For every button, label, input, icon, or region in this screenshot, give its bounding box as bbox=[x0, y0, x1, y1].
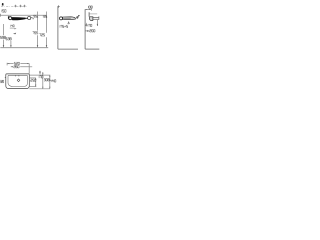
rim 2 bottom line bbox=[93, 18, 99, 20]
drain symbol bbox=[17, 79, 20, 82]
dim right hook tail bbox=[29, 66, 32, 68]
label 140 bbox=[11, 25, 14, 27]
dim right hook vertical bbox=[28, 63, 30, 73]
label 440 bbox=[51, 80, 56, 82]
arrow 170p bottom bbox=[42, 87, 43, 89]
arrow 140 bbox=[13, 33, 16, 35]
arrow 725 top bbox=[46, 15, 47, 17]
section tap-hole outline bbox=[28, 17, 31, 20]
v-dim right of basin 2 bbox=[96, 20, 98, 26]
wall 1 line bbox=[57, 7, 59, 49]
diameter symbol bbox=[77, 15, 80, 18]
v-dim arrow bbox=[97, 24, 98, 26]
label 755 bbox=[33, 32, 38, 34]
ext line ledge bbox=[29, 77, 36, 79]
section overflow circle bbox=[9, 17, 12, 20]
basin inner bowl bbox=[8, 75, 28, 86]
label 200 bbox=[90, 30, 95, 32]
fixing cross 1 bbox=[14, 5, 16, 7]
tap ledge tick 2 bbox=[18, 75, 20, 76]
label 320 bbox=[0, 80, 4, 83]
dim 520 left tick bbox=[6, 63, 8, 66]
arrow 638 bottom bbox=[10, 45, 11, 47]
dim 108 line bbox=[85, 8, 91, 10]
dot 140 bbox=[15, 28, 16, 29]
floor line 2 bbox=[85, 48, 99, 50]
rim line left tick bbox=[0, 14, 2, 17]
basin 1 mid line bbox=[63, 17, 71, 19]
tap/overflow mark top-left bbox=[2, 3, 4, 6]
rim 2 top line bbox=[93, 17, 99, 19]
dim line 755 lower bbox=[37, 35, 39, 47]
label 250 bbox=[31, 79, 36, 81]
arrow 320 bbox=[5, 77, 6, 78]
rim reference line bbox=[0, 14, 47, 16]
v-dim 250 bbox=[35, 78, 37, 87]
label 175+-5 bbox=[60, 25, 68, 27]
arrow under basin 1 bbox=[68, 22, 70, 24]
section rim tail bbox=[26, 17, 28, 19]
label 638 bbox=[6, 38, 11, 40]
arrow 725 bottom bbox=[46, 45, 47, 47]
label 308 bbox=[44, 79, 49, 81]
floor line 1 bbox=[58, 48, 78, 50]
v-dim 440 bbox=[49, 75, 51, 89]
dim line 598 lower bbox=[3, 40, 5, 48]
dim 260 arrow L bbox=[11, 66, 13, 67]
label 95 bbox=[34, 15, 37, 17]
arrow 755 bottom bbox=[37, 45, 38, 47]
arrow 250 bottom bbox=[35, 85, 36, 87]
section end dot 1 bbox=[31, 17, 32, 18]
dim 520 line bbox=[7, 63, 29, 65]
tap 2 bbox=[88, 12, 90, 16]
label 170 wall bbox=[88, 24, 92, 26]
dim 520 arrow L bbox=[7, 63, 9, 64]
dash-dot centerline bbox=[1, 6, 27, 8]
section left tick bbox=[7, 16, 9, 19]
dim line 725 lower bbox=[46, 37, 48, 47]
ext line outer-bottom bbox=[29, 88, 50, 90]
label 520 bbox=[14, 62, 19, 64]
trap circle bbox=[60, 17, 63, 20]
bowl 2 bbox=[90, 17, 93, 21]
ext line bowl-bottom bbox=[29, 86, 36, 88]
fixing cross 2 bbox=[19, 5, 21, 7]
bracket 140 bbox=[10, 28, 15, 29]
arrow 250 top bbox=[35, 78, 36, 80]
arrow 170 wall bbox=[86, 24, 87, 27]
dim 520 arrow R bbox=[27, 63, 29, 64]
dim 108 arrow R bbox=[89, 9, 91, 10]
wall 2 line bbox=[84, 9, 86, 49]
arrow 755 top bbox=[37, 15, 38, 17]
arrow 170p bbox=[42, 73, 43, 75]
fixing cross 3 bbox=[23, 5, 25, 7]
label 170 plan bbox=[39, 76, 43, 78]
arrow 440 bottom bbox=[49, 87, 50, 89]
section basin solid band bbox=[12, 17, 26, 20]
dim 260 line bbox=[11, 66, 29, 68]
label 725 bbox=[39, 34, 44, 36]
dim 108 arrow L bbox=[85, 9, 87, 10]
label 598 bbox=[0, 36, 5, 38]
section end dot 2 bbox=[33, 18, 34, 19]
label 108 bbox=[88, 6, 92, 8]
arrow 440 top bbox=[49, 75, 50, 77]
dim line 725 bbox=[46, 12, 48, 33]
basin 1 body bbox=[63, 17, 76, 20]
label 260 bbox=[14, 66, 19, 68]
arrow 598 bottom bbox=[3, 45, 4, 47]
label 135 bbox=[43, 15, 47, 17]
dim line 598 upper bbox=[3, 24, 5, 35]
arrow 200 bbox=[86, 30, 90, 31]
dim line 638 bbox=[10, 41, 12, 48]
floor line left bbox=[0, 47, 48, 49]
wall 1 top cross bbox=[57, 5, 60, 8]
rim 2 end tick bbox=[98, 16, 100, 19]
dim 108 right tick bbox=[90, 8, 92, 11]
basin outer rim bbox=[6, 74, 30, 89]
tap ledge tick 1 bbox=[14, 75, 16, 76]
tick 170 top bbox=[39, 71, 40, 74]
label 150 bbox=[2, 10, 6, 13]
ext line inner-top bbox=[29, 74, 50, 76]
dim line 755 bbox=[37, 12, 39, 31]
v-dim 170 bbox=[42, 72, 44, 89]
tap 2 ref line bbox=[89, 13, 97, 15]
